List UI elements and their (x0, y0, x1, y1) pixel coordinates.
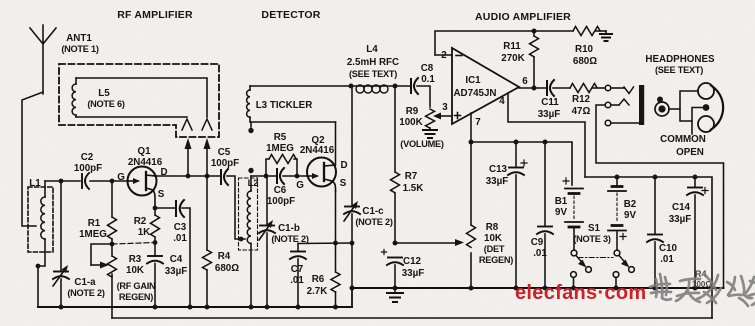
svg-text:(DET: (DET (484, 244, 505, 254)
wire: V- rail (585, 177, 712, 318)
L1 dashed enclosure (28, 187, 53, 252)
antenna ANT1 (22, 25, 56, 226)
svg-text:100K: 100K (399, 117, 422, 128)
svg-text:ANT1: ANT1 (66, 33, 92, 44)
svg-text:(NOTE 2): (NOTE 2) (355, 217, 392, 227)
svg-text:AUDIO AMPLIFIER: AUDIO AMPLIFIER (475, 11, 571, 23)
potentiometer R8 10K DET REGEN (467, 142, 476, 288)
svg-text:33µF: 33µF (538, 109, 561, 120)
socket pin contact left (182, 119, 192, 130)
wire: Q2 source down (335, 191, 337, 243)
svg-text:C2: C2 (81, 152, 94, 163)
svg-text:L5: L5 (98, 88, 110, 99)
svg-text:RF AMPLIFIER: RF AMPLIFIER (117, 9, 193, 21)
svg-text:0.1: 0.1 (421, 74, 435, 85)
svg-text:D: D (340, 160, 347, 171)
socket pin contact right (202, 119, 212, 130)
svg-text:S: S (340, 178, 347, 189)
svg-text:C12: C12 (403, 256, 422, 267)
capacitor C4 33uF (147, 256, 163, 307)
svg-text:(NOTE 2): (NOTE 2) (67, 288, 104, 298)
svg-text:L2: L2 (248, 178, 259, 188)
svg-text:C1-a: C1-a (74, 277, 96, 288)
svg-text:C1-b: C1-b (278, 223, 300, 234)
svg-text:S: S (158, 189, 165, 200)
capacitor C7 .01 (290, 244, 306, 308)
svg-text:AD745JN: AD745JN (453, 88, 496, 99)
svg-text:6: 6 (522, 76, 528, 87)
wire: Q1 drain row (155, 175, 220, 177)
svg-text:1K: 1K (138, 227, 151, 238)
variable capacitor C1-b (259, 176, 275, 307)
svg-text:R5: R5 (274, 132, 287, 143)
wire: jack common return (596, 105, 724, 288)
capacitor C3 .01 (155, 200, 190, 307)
svg-text:Q1: Q1 (137, 146, 151, 157)
ground at R10 (600, 31, 612, 41)
variable capacitor C1-a (53, 181, 69, 307)
svg-text:C11: C11 (541, 97, 559, 108)
transistor Q1 2N4416 JFET (128, 167, 157, 209)
wire: ground bus left (38, 306, 352, 308)
junction dot R1/R3 (110, 242, 115, 247)
svg-text:.01: .01 (173, 233, 187, 244)
svg-text:(NOTE 2): (NOTE 2) (271, 234, 308, 244)
watermark: chinese calligraphy characters (650, 274, 755, 306)
capacitor C8 0.1 (411, 78, 430, 107)
svg-text:33µF: 33µF (669, 214, 692, 225)
svg-text:C9: C9 (531, 237, 544, 248)
capacitor C12 33uF (382, 250, 404, 289)
coil L3 tickler (247, 86, 336, 122)
svg-text:R10: R10 (575, 44, 594, 55)
variable capacitor C1-c (344, 86, 360, 288)
headphone plug symbol (655, 83, 723, 134)
jack sleeve bar (639, 85, 644, 125)
svg-text:G: G (296, 180, 304, 191)
capacitor C9 .01 (537, 142, 553, 288)
ground under R9 (423, 130, 437, 138)
junction dot Q1 source node (153, 206, 158, 211)
capacitor C5 100pF (221, 169, 245, 239)
svg-text:7: 7 (475, 117, 481, 128)
svg-text:REGEN): REGEN) (119, 292, 153, 302)
coil L2 (247, 176, 251, 307)
svg-text:HEADPHONES: HEADPHONES (645, 54, 715, 65)
coil L5 (72, 78, 76, 117)
svg-text:G: G (117, 172, 125, 183)
svg-text:elecfans·com: elecfans·com (515, 282, 646, 304)
svg-text:9V: 9V (624, 210, 636, 221)
svg-text:(NOTE 1): (NOTE 1) (61, 44, 98, 54)
svg-text:S1: S1 (588, 223, 601, 234)
node A: tank top rail (45, 180, 80, 182)
svg-text:9V: 9V (555, 207, 567, 218)
ground symbol below C12 (387, 288, 403, 302)
pin 7 wire to V+ rail (470, 113, 472, 142)
potentiometer R3 10K RF GAIN REGEN (91, 244, 117, 318)
switch S1 section B (613, 250, 634, 288)
capacitor C11 33uF (547, 80, 570, 96)
wire: R3 top to R2 bottom (112, 243, 155, 245)
svg-text:R6: R6 (312, 274, 325, 285)
svg-text:1MEG: 1MEG (79, 229, 107, 240)
junction dot R7/C12/R8 wiper (393, 241, 398, 246)
capacitor C6 100pF (277, 168, 284, 184)
wire: V+ rail (471, 142, 572, 185)
svg-text:C4: C4 (170, 254, 183, 265)
svg-text:IC1: IC1 (465, 75, 481, 86)
svg-text:R2: R2 (134, 216, 147, 227)
svg-text:COMMON: COMMON (660, 134, 706, 145)
resistor R11 270K (530, 31, 539, 88)
resistor R4 680ohm (203, 176, 212, 307)
svg-text:3: 3 (442, 102, 448, 113)
svg-text:100pF: 100pF (267, 196, 295, 207)
svg-text:L3 TICKLER: L3 TICKLER (256, 100, 313, 111)
svg-text:33µF: 33µF (402, 268, 425, 279)
svg-text:R3: R3 (129, 254, 142, 265)
capacitor C2 (82, 173, 89, 189)
plug arrow right (C5 node to coil socket) (204, 138, 211, 177)
resistor R1 1MEG (108, 181, 117, 244)
headphone jack J1 contacts (605, 85, 639, 126)
pin 3 (438, 115, 451, 117)
resistor R7 1.5K (391, 86, 400, 243)
svg-text:2N4416: 2N4416 (128, 157, 163, 168)
resistor R10 680ohm (573, 27, 606, 36)
svg-text:C1-c: C1-c (362, 206, 384, 217)
svg-text:C8: C8 (421, 63, 434, 74)
svg-text:33µF: 33µF (486, 176, 509, 187)
junction dot R2/C4/R3 link (153, 240, 158, 245)
svg-text:R8: R8 (486, 222, 499, 233)
svg-text:C5: C5 (218, 147, 231, 158)
svg-text:(NOTE 3): (NOTE 3) (573, 234, 610, 244)
junction dot R1 top (110, 179, 115, 184)
L2 plug pin (248, 168, 253, 173)
plug arrow left (Q1 drain to coil socket) (185, 138, 192, 177)
svg-text:C14: C14 (672, 202, 691, 213)
battery B1 9V (563, 178, 583, 250)
svg-text:33µF: 33µF (165, 266, 188, 277)
wire: ground bus step (351, 288, 353, 307)
transistor Q2 2N4416 JFET (307, 158, 336, 192)
switch S1 section A (571, 250, 592, 288)
svg-text:2N4416: 2N4416 (300, 145, 335, 156)
svg-text:1MEG: 1MEG (266, 143, 294, 154)
svg-text:L4: L4 (366, 44, 378, 55)
svg-text:(SEE TEXT): (SEE TEXT) (655, 65, 703, 75)
coil L1 (38, 181, 45, 307)
wire: source bias row (298, 242, 352, 245)
svg-text:(NOTE 6): (NOTE 6) (87, 99, 124, 109)
svg-text:R1: R1 (88, 218, 101, 229)
svg-text:100pF: 100pF (74, 163, 102, 174)
svg-text:DETECTOR: DETECTOR (261, 9, 320, 21)
svg-text:REGEN): REGEN) (479, 255, 513, 265)
svg-text:4: 4 (499, 96, 505, 107)
svg-text:2.7K: 2.7K (307, 286, 328, 297)
svg-text:R12: R12 (572, 94, 591, 105)
capacitor C13 33uF (508, 142, 527, 288)
feedback wire (435, 31, 573, 55)
svg-text:(SEE TEXT): (SEE TEXT) (349, 69, 397, 79)
L2 dashed enclosure (239, 178, 258, 250)
svg-text:270K: 270K (501, 53, 524, 64)
svg-text:680Ω: 680Ω (573, 56, 597, 67)
svg-text:C6: C6 (274, 185, 287, 196)
svg-text:OPEN: OPEN (676, 147, 704, 158)
wire: ground bus right (352, 287, 724, 289)
wire: L3 bottom to Q2 drain (335, 122, 337, 165)
svg-text:10K: 10K (126, 265, 144, 276)
inductor L4 2.5mH RFC (356, 85, 388, 93)
svg-text:10K: 10K (484, 233, 502, 244)
potentiometer R9 100K volume (426, 109, 442, 130)
resistor R12 47ohm (570, 84, 605, 93)
svg-text:1.5K: 1.5K (403, 183, 424, 194)
wire: detector output row (250, 85, 411, 87)
wire: Q2 gate row (251, 175, 277, 177)
switch S1 mechanical link (578, 257, 613, 259)
svg-text:2.5mH RFC: 2.5mH RFC (347, 57, 399, 68)
svg-text:100pF: 100pF (211, 158, 239, 169)
L5 winding leads to socket pins (76, 78, 207, 117)
pin 2 (435, 54, 452, 56)
wire: V- return bus bottom (112, 317, 712, 319)
svg-text:R7: R7 (405, 171, 418, 182)
svg-text:47Ω: 47Ω (572, 106, 591, 117)
svg-text:L1: L1 (29, 178, 41, 189)
svg-text:.01: .01 (660, 254, 674, 265)
svg-text:2: 2 (441, 50, 447, 61)
svg-text:(VOLUME): (VOLUME) (400, 139, 444, 149)
junction dot L1 bottom jog (36, 264, 41, 269)
wire: op-amp output row (519, 87, 547, 89)
L5 plug-in coil dashed enclosure (59, 64, 219, 137)
wire: R8 wiper row (395, 242, 458, 244)
svg-text:B1: B1 (555, 196, 568, 207)
svg-text:C13: C13 (489, 164, 508, 175)
resistor R2 1K (151, 208, 160, 256)
capacitor C14 33uF (687, 177, 708, 288)
svg-text:680Ω: 680Ω (215, 263, 239, 274)
svg-text:.01: .01 (290, 275, 304, 286)
svg-text:R11: R11 (503, 41, 521, 52)
svg-text:R4: R4 (218, 251, 231, 262)
resistor R5 1MEG (266, 155, 297, 177)
L3 plug pin (250, 122, 252, 127)
svg-text:C10: C10 (659, 243, 678, 254)
svg-text:R9: R9 (406, 106, 419, 117)
svg-text:C7: C7 (291, 264, 304, 275)
op-amp IC1 AD745JN (452, 48, 519, 124)
junction dot C1-a top (59, 179, 64, 184)
resistor R6 2.7K (331, 243, 340, 307)
svg-text:C3: C3 (174, 222, 187, 233)
svg-text:(RF GAIN: (RF GAIN (117, 281, 156, 291)
svg-text:B2: B2 (624, 199, 637, 210)
svg-text:.01: .01 (533, 248, 547, 259)
battery B2 9V (608, 177, 626, 250)
pin 4 wire to V- rail (508, 93, 585, 177)
capacitor C10 .01 (647, 177, 663, 288)
